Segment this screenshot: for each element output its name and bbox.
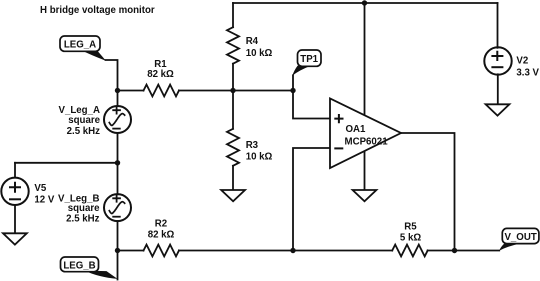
svg-text:square: square <box>68 203 100 214</box>
svg-text:OA1: OA1 <box>346 124 367 135</box>
svg-text:82 kΩ: 82 kΩ <box>147 69 174 80</box>
svg-text:82 kΩ: 82 kΩ <box>148 230 175 241</box>
svg-text:R4: R4 <box>246 36 259 47</box>
svg-text:5 kΩ: 5 kΩ <box>400 232 421 243</box>
svg-text:R2: R2 <box>155 219 167 230</box>
svg-text:V2: V2 <box>516 55 528 66</box>
svg-text:2.5 kHz: 2.5 kHz <box>66 214 100 225</box>
svg-text:12 V: 12 V <box>34 195 54 206</box>
svg-text:H bridge voltage monitor: H bridge voltage monitor <box>40 5 155 16</box>
svg-text:MCP6021: MCP6021 <box>345 137 389 148</box>
svg-text:10 kΩ: 10 kΩ <box>246 48 273 59</box>
svg-text:R5: R5 <box>404 222 417 233</box>
svg-text:LEG_B: LEG_B <box>63 260 95 271</box>
svg-text:V_OUT: V_OUT <box>504 232 536 243</box>
svg-text:TP1: TP1 <box>300 54 318 65</box>
svg-text:V5: V5 <box>34 183 46 194</box>
svg-text:2.5 kHz: 2.5 kHz <box>67 126 101 137</box>
svg-text:square: square <box>68 115 100 126</box>
svg-text:3.3 V: 3.3 V <box>516 67 539 78</box>
svg-text:LEG_A: LEG_A <box>64 40 96 51</box>
svg-text:R3: R3 <box>246 140 259 151</box>
svg-text:10 kΩ: 10 kΩ <box>246 152 273 163</box>
